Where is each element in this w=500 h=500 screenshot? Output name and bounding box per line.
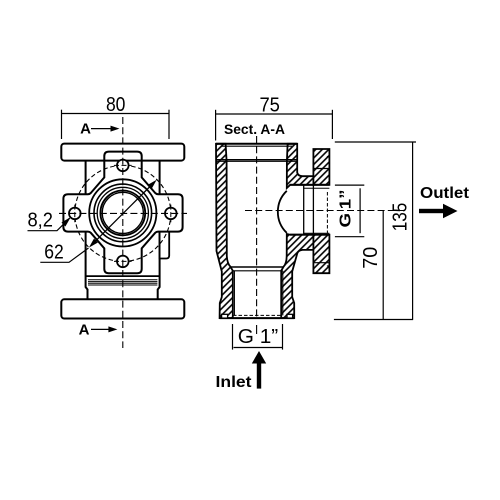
top flange bbox=[61, 144, 184, 161]
horizontal centerline bbox=[245, 210, 408, 212]
bolt hole top bbox=[117, 160, 129, 172]
dimension 70 line bbox=[382, 211, 384, 320]
outlet flange hatched bottom bbox=[313, 235, 329, 274]
bottom flange bbox=[61, 299, 184, 318]
svg-text:A: A bbox=[80, 121, 91, 138]
wire body side right bbox=[158, 161, 160, 300]
dimension 80 line bbox=[62, 113, 170, 115]
dimension 75 line bbox=[216, 113, 333, 115]
side tab (outlet edge-on) bbox=[160, 232, 170, 259]
leader 62 bbox=[40, 248, 88, 262]
outlet bore bottom line bbox=[290, 234, 329, 236]
port circle outer bbox=[89, 179, 156, 246]
plate top lobe bbox=[104, 152, 141, 161]
thread relief square left bbox=[222, 314, 228, 318]
leader 8,2 bbox=[28, 218, 70, 230]
dimension G1 right ext bottom bbox=[335, 236, 364, 238]
thread major line left bbox=[233, 271, 235, 316]
dimension 75 ext left bbox=[215, 110, 217, 141]
outlet face thread dashed bbox=[326, 192, 328, 233]
port circle 5 bbox=[102, 192, 143, 233]
centerline dash in G1 text bbox=[256, 325, 258, 334]
outlet flange face notch bottom bbox=[327, 265, 330, 267]
dimension G1 bottom ext right bbox=[282, 324, 284, 350]
thread line 2 bbox=[88, 281, 157, 283]
svg-text:A: A bbox=[79, 321, 90, 338]
dimension bottom ext shared bbox=[334, 319, 413, 321]
svg-text:62: 62 bbox=[44, 242, 64, 264]
bottom thread dashed bbox=[233, 314, 281, 316]
bore intersection arc bbox=[278, 191, 287, 233]
svg-text:G 1”: G 1” bbox=[238, 326, 279, 348]
thread line 1 bbox=[88, 279, 157, 281]
dimension G1 right ext top bbox=[335, 184, 364, 186]
interior top line 1 bbox=[216, 159, 297, 161]
svg-text:70: 70 bbox=[360, 247, 382, 269]
interior top line 2 bbox=[216, 160, 297, 162]
wire body side left bbox=[86, 161, 88, 300]
dimension 135 ext top bbox=[335, 141, 416, 143]
top rim line bbox=[216, 143, 297, 145]
outlet flange internal line bottom bbox=[313, 262, 329, 264]
dimension 80 ext right bbox=[168, 110, 170, 139]
outlet flange face notch top bbox=[327, 156, 330, 158]
hole crosshair dashes bbox=[114, 164, 132, 166]
svg-text:75: 75 bbox=[259, 95, 280, 117]
svg-text:135: 135 bbox=[390, 203, 412, 232]
dimension 80 ext left bbox=[61, 110, 63, 139]
thread line 4 bbox=[88, 284, 157, 286]
dimension G1 right line bbox=[359, 188, 361, 233]
svg-text:8,2: 8,2 bbox=[27, 210, 53, 232]
svg-text:G 1”: G 1” bbox=[338, 190, 355, 228]
bottom face bbox=[220, 317, 295, 319]
vertical centerline bbox=[256, 136, 258, 318]
thread shoulder line bbox=[86, 275, 160, 277]
horizontal centerline bbox=[59, 212, 187, 214]
dimension G1 bottom ext left bbox=[232, 324, 234, 350]
section arrow top bbox=[91, 128, 112, 130]
port circle 2 bbox=[94, 184, 152, 242]
mounting plate bbox=[63, 161, 182, 274]
right wall upper hatched bbox=[287, 144, 314, 188]
dimension G1 bottom line bbox=[234, 347, 283, 349]
vertical centerline bbox=[122, 117, 124, 348]
bolt hole left bbox=[69, 208, 81, 220]
outlet bore top line bbox=[290, 184, 329, 186]
dimension 75 ext right bbox=[331, 110, 333, 139]
outlet arrow bbox=[419, 209, 444, 213]
thread major line right bbox=[282, 271, 284, 316]
outlet thread line bottom bbox=[304, 232, 330, 234]
diameter arrow 62 (double headed) bbox=[91, 182, 154, 245]
thread line 3 bbox=[88, 282, 157, 284]
outlet thread line top bbox=[304, 187, 330, 189]
port circle 3 bbox=[97, 187, 148, 238]
interior shoulder line 2 bbox=[233, 270, 283, 272]
outlet flange internal line top bbox=[313, 168, 329, 170]
dimension 135 line bbox=[412, 142, 414, 320]
outlet thread end line bbox=[303, 185, 305, 235]
right wall lower hatched bbox=[281, 234, 313, 318]
svg-text:Outlet: Outlet bbox=[420, 185, 470, 202]
interior shoulder line 1 bbox=[230, 266, 284, 268]
outlet flange face line bbox=[312, 185, 314, 235]
thread relief square right bbox=[287, 314, 293, 318]
port circle 4 (bore) bbox=[100, 191, 145, 236]
left wall hatched bbox=[216, 144, 233, 318]
bolt hole bottom bbox=[117, 256, 129, 268]
inlet arrow bbox=[257, 363, 261, 389]
section arrow bottom bbox=[91, 328, 110, 330]
top chamfer line bbox=[222, 145, 293, 147]
outlet flange hatched top bbox=[313, 149, 329, 185]
svg-text:Sect. A-A: Sect. A-A bbox=[224, 121, 285, 137]
bolt hole right bbox=[165, 208, 177, 220]
svg-text:Inlet: Inlet bbox=[216, 374, 253, 391]
svg-text:80: 80 bbox=[106, 94, 126, 116]
bolt circle dashed bbox=[75, 165, 171, 261]
